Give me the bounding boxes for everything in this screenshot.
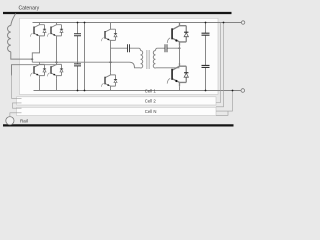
wire Q7 emitter (179, 46, 181, 63)
wire secondary bottom feed (156, 67, 180, 69)
node secondary feed junction (179, 47, 181, 49)
IGBT Q7 top leg D (167, 23, 188, 46)
node bus tie top (84, 22, 86, 24)
wire primary top feed (111, 48, 141, 50)
wire secondary top feed (156, 48, 180, 50)
node output cap bottom (205, 90, 207, 92)
IGBT Q6 bottom leg C (101, 73, 117, 89)
riser cell2 plus (216, 23, 221, 103)
IGBT Q4 bottom leg B (47, 62, 63, 78)
riser minus bus (216, 91, 233, 112)
cell N box (17, 107, 217, 115)
wire Q3 emitter to rail (39, 78, 41, 90)
wire Q1 emitter (39, 39, 41, 51)
node riser3 (232, 90, 234, 92)
IGBT Q3 bottom leg A (30, 62, 46, 78)
node B dot (56, 61, 58, 63)
svg-text:Cell 2: Cell 2 (145, 98, 157, 103)
dc bus bottom rail (34, 90, 241, 92)
wire Q6 stubs (110, 62, 112, 90)
IGBT Q2 top leg B (47, 23, 63, 39)
wheel contact (6, 117, 14, 125)
wire cell2 to cellN (13, 103, 22, 108)
output capacitor column (205, 23, 207, 91)
wire cellN minus (216, 111, 228, 115)
node bus tie bottom (84, 90, 86, 92)
IGBT Q1 top leg A (30, 23, 46, 39)
svg-text:Rail: Rail (20, 119, 28, 124)
cell 2 box (17, 97, 217, 105)
capacitor C1 plates (74, 34, 81, 36)
catenary line (3, 12, 232, 14)
svg-text:Cell 1: Cell 1 (145, 89, 157, 94)
node riser2 (223, 22, 225, 24)
cell 1 box (20, 18, 219, 94)
node cap bottom (77, 90, 79, 92)
riser cellN plus (216, 23, 224, 107)
rail line (3, 124, 234, 126)
wire catenary drop (11, 14, 16, 26)
wire Q5 emitter (110, 43, 112, 62)
transformer core (147, 50, 149, 69)
svg-text:Catenary: Catenary (19, 5, 40, 11)
capacitor C5 plates (202, 33, 210, 35)
node cap top (77, 22, 79, 24)
node C dot (110, 61, 112, 63)
wire bus tie (84, 23, 86, 91)
capacitor C6 plates (202, 65, 210, 67)
transformer T1 primary (141, 50, 143, 68)
wire Q2 emitter (56, 39, 58, 63)
IGBT Q8 bottom leg D (167, 63, 188, 86)
terminal plus (241, 21, 244, 24)
wire midpoint chord (32, 62, 140, 68)
svg-text:Cell N: Cell N (145, 109, 157, 114)
node input dot (31, 58, 33, 60)
terminal minus (241, 89, 245, 93)
wire cellN to rail (10, 113, 22, 117)
capacitor C4 series plates (165, 44, 167, 52)
IGBT Q5 top leg C (110, 23, 112, 28)
wire Q4 emitter to rail (56, 78, 58, 90)
node output cap top (205, 22, 207, 24)
wire L to cell1 input (11, 52, 33, 59)
wire leg A midpoint jog (32, 50, 39, 62)
dc bus top rail (33, 22, 242, 24)
wire Q8 emitter to rail (179, 86, 181, 90)
inductor L (8, 26, 11, 52)
transformer T1 secondary (153, 50, 155, 68)
capacitor C2 plates (74, 64, 81, 66)
wire return to next cell (12, 62, 57, 75)
dc link capacitor column (77, 23, 79, 91)
capacitor C3 series plates (128, 44, 130, 52)
